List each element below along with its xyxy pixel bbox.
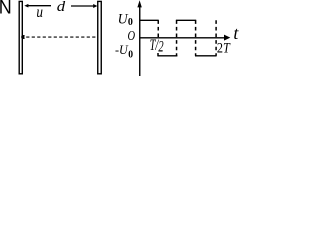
svg-text:2T: 2T: [217, 41, 231, 57]
stub at T/2 bottom corner: [157, 53, 159, 56]
x-axis: [140, 35, 231, 41]
svg-text:d: d: [57, 0, 66, 15]
waveform -U0 segment 2: [195, 55, 217, 57]
svg-text:T/2: T/2: [150, 37, 164, 56]
label U0: [118, 12, 133, 28]
svg-text:-U: -U: [115, 42, 129, 57]
y-axis: [137, 0, 141, 76]
dashed vertical 2T: [215, 20, 217, 56]
label -U0: [115, 42, 133, 61]
arrow d: [71, 4, 97, 8]
particle: [21, 35, 25, 39]
svg-text:u: u: [36, 4, 43, 21]
svg-text:t: t: [233, 23, 239, 43]
svg-text:O: O: [128, 29, 136, 44]
waveform -U0 segment 1: [157, 55, 177, 57]
dashed vertical 3T/2: [195, 20, 197, 56]
dashed vertical T: [176, 20, 178, 56]
waveform U0 segment 1: [140, 19, 159, 21]
arrow u: [24, 4, 51, 8]
right plate: [98, 1, 102, 73]
dashed trajectory: [26, 36, 98, 38]
dashed vertical T/2: [157, 20, 159, 37]
svg-text:0: 0: [128, 17, 133, 28]
svg-text:N: N: [0, 0, 12, 18]
waveform U0 segment 2: [176, 19, 196, 21]
svg-text:0: 0: [128, 49, 133, 61]
left plate: [19, 1, 22, 73]
